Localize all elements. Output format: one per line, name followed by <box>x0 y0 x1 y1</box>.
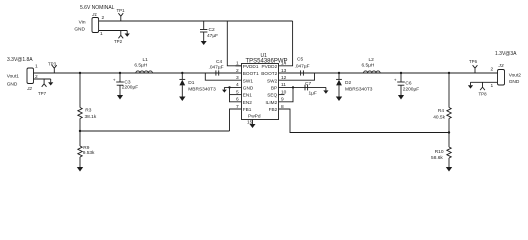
svg-text:ILIM2: ILIM2 <box>265 100 277 105</box>
svg-text:13: 13 <box>281 68 287 74</box>
test point TP1 <box>117 8 126 21</box>
wire SW1 jog <box>205 73 241 80</box>
wire R3 to junction <box>79 119 81 147</box>
svg-text:38.1k: 38.1k <box>85 114 97 120</box>
test point TP8 <box>479 82 488 96</box>
svg-text:EN2: EN2 <box>243 100 253 105</box>
svg-text:TP8: TP8 <box>479 92 488 97</box>
svg-text:D2: D2 <box>345 80 351 86</box>
node BP junction <box>292 86 294 88</box>
ground (C6) <box>398 95 404 100</box>
svg-text:TP7: TP7 <box>38 91 47 96</box>
pin 15 PwPd ground <box>247 120 256 129</box>
connector J2 <box>7 64 38 93</box>
svg-text:5.6V NOMINAL: 5.6V NOMINAL <box>80 5 115 11</box>
svg-text:2200µF: 2200µF <box>403 87 419 93</box>
capacitor C7 <box>305 81 317 97</box>
svg-text:1: 1 <box>35 64 38 70</box>
svg-text:PVDD1: PVDD1 <box>243 64 259 69</box>
svg-text:R3: R3 <box>85 108 91 114</box>
svg-text:6.5µH: 6.5µH <box>362 63 375 69</box>
wire GND pin4 <box>224 86 241 88</box>
wire PVDD2 drop <box>279 21 293 66</box>
ground (D1) <box>179 97 185 102</box>
wire J2 pin2 <box>34 78 51 80</box>
svg-text:+: + <box>394 79 397 84</box>
ground (BP) <box>323 87 328 93</box>
test point TP7 <box>38 79 47 96</box>
diode D2 <box>336 73 373 97</box>
svg-text:6.5µH: 6.5µH <box>134 63 147 69</box>
svg-text:SW2: SW2 <box>267 78 278 83</box>
pin 1 PVDD1 <box>236 65 242 67</box>
wire R4 to junction <box>448 119 450 148</box>
resistor R3 <box>78 73 97 120</box>
svg-text:MBRS340T3: MBRS340T3 <box>188 87 216 93</box>
capacitor C3 <box>113 73 138 95</box>
svg-text:GND: GND <box>509 79 520 85</box>
wire PVDD1 drop <box>227 21 241 66</box>
diode D1 <box>179 73 216 97</box>
svg-text:2200µF: 2200µF <box>122 84 138 90</box>
connector J1 <box>74 12 104 37</box>
svg-text:R4: R4 <box>438 108 444 114</box>
resistor R9 <box>78 145 95 157</box>
svg-text:Vin: Vin <box>79 20 86 26</box>
ground (C3) <box>117 95 123 100</box>
wire EN1/EN2 tie <box>230 87 242 101</box>
svg-text:L1: L1 <box>143 57 149 63</box>
node R4 top <box>448 72 450 74</box>
svg-text:2: 2 <box>491 67 494 73</box>
capacitor C5 <box>295 57 310 76</box>
svg-text:47µF: 47µF <box>207 33 218 39</box>
svg-text:3.3V@1.8A: 3.3V@1.8A <box>7 57 33 63</box>
ground (D2) <box>336 97 342 102</box>
svg-text:Vout2: Vout2 <box>509 73 522 79</box>
svg-text:FB2: FB2 <box>269 107 278 112</box>
node FB2 junction <box>448 131 450 133</box>
svg-text:GND: GND <box>74 27 85 33</box>
node C6 top <box>400 72 402 74</box>
node D1 top <box>181 72 183 74</box>
wire SW2 jog <box>279 73 315 80</box>
svg-text:15: 15 <box>247 120 253 126</box>
svg-text:2: 2 <box>102 15 105 21</box>
test point TP3 <box>48 62 57 74</box>
svg-text:SEQ: SEQ <box>267 93 277 98</box>
svg-text:Vout1: Vout1 <box>7 74 20 80</box>
svg-text:BOOT1: BOOT1 <box>243 71 259 76</box>
wire FB2 to divider <box>279 109 450 133</box>
svg-text:PVDD2: PVDD2 <box>262 64 278 69</box>
ground (J2 pin2) <box>48 79 53 86</box>
svg-text:9.53k: 9.53k <box>83 150 95 156</box>
svg-text:TP6: TP6 <box>469 59 478 64</box>
svg-text:10: 10 <box>281 89 287 95</box>
wire FB1 line <box>80 130 230 132</box>
svg-text:GND: GND <box>243 86 254 91</box>
svg-text:L2: L2 <box>369 57 375 63</box>
svg-text:SW1: SW1 <box>243 78 254 83</box>
ground (J1 pin1) <box>125 31 130 37</box>
ground (C2) <box>201 41 207 45</box>
inductor L2 <box>362 57 381 73</box>
svg-text:FB1: FB1 <box>243 107 252 112</box>
ground (R9) <box>77 157 83 172</box>
svg-text:TP1: TP1 <box>117 8 126 13</box>
capacitor C6 <box>394 73 419 95</box>
svg-text:1: 1 <box>236 61 239 67</box>
capacitor C4 <box>209 59 224 76</box>
svg-text:1µF: 1µF <box>309 91 317 97</box>
svg-text:.047µF: .047µF <box>295 64 310 70</box>
svg-text:1.3V@3A: 1.3V@3A <box>495 51 517 57</box>
wire ILIM2 tie <box>279 87 294 101</box>
ground (J3 pin1) <box>468 82 473 88</box>
svg-text:14: 14 <box>281 61 287 67</box>
wire BP <box>279 86 326 88</box>
wire J3 pin1 <box>471 81 498 83</box>
svg-text:C4: C4 <box>216 59 222 65</box>
svg-text:TP2: TP2 <box>114 39 123 44</box>
svg-text:40.5k: 40.5k <box>433 115 445 121</box>
svg-text:J2: J2 <box>26 86 32 92</box>
inductor L1 <box>134 57 152 73</box>
svg-text:J1: J1 <box>91 12 97 18</box>
wire Vout1 rail <box>34 72 242 74</box>
wire Vout2 rail <box>315 72 498 74</box>
node EN junction <box>228 86 230 88</box>
wire input top rail <box>99 20 293 22</box>
ground (pin4) <box>222 87 227 92</box>
connector J3 <box>491 63 522 89</box>
svg-text:R10: R10 <box>435 149 444 155</box>
svg-text:1: 1 <box>491 83 494 89</box>
svg-text:.047µF: .047µF <box>209 65 224 71</box>
pin 13 BOOT2 <box>279 72 315 74</box>
test point TP2 <box>114 31 123 45</box>
svg-text:C6: C6 <box>405 81 411 87</box>
svg-text:J3: J3 <box>498 63 504 69</box>
node FB1 junction <box>79 130 81 132</box>
pin 10 SEQ <box>279 94 285 96</box>
resistor R10 <box>431 147 451 161</box>
ground (R10) <box>446 158 452 172</box>
test point TP6 <box>469 59 478 73</box>
svg-text:PwPd: PwPd <box>248 114 261 120</box>
svg-text:58.6k: 58.6k <box>431 155 443 161</box>
svg-text:MBRS340T3: MBRS340T3 <box>345 87 373 93</box>
op-amp U1 TPS54386PWP body <box>242 53 288 120</box>
wire J1 pin1 <box>99 30 128 32</box>
node R3 top <box>79 72 81 74</box>
wire FB1 to divider <box>230 109 242 131</box>
svg-text:BOOT2: BOOT2 <box>261 71 277 76</box>
svg-text:GND: GND <box>7 82 18 88</box>
svg-text:EN1: EN1 <box>243 93 253 98</box>
svg-text:BP: BP <box>271 86 277 91</box>
svg-text:C7: C7 <box>305 81 311 87</box>
svg-text:1: 1 <box>100 31 103 37</box>
node C3 top <box>119 72 121 74</box>
resistor R4 <box>433 73 451 121</box>
node D2 top <box>338 72 340 74</box>
svg-text:+: + <box>113 79 116 84</box>
svg-text:C5: C5 <box>297 57 303 63</box>
svg-text:D1: D1 <box>188 80 194 86</box>
svg-text:C2: C2 <box>209 27 215 33</box>
capacitor C2 <box>200 21 218 41</box>
